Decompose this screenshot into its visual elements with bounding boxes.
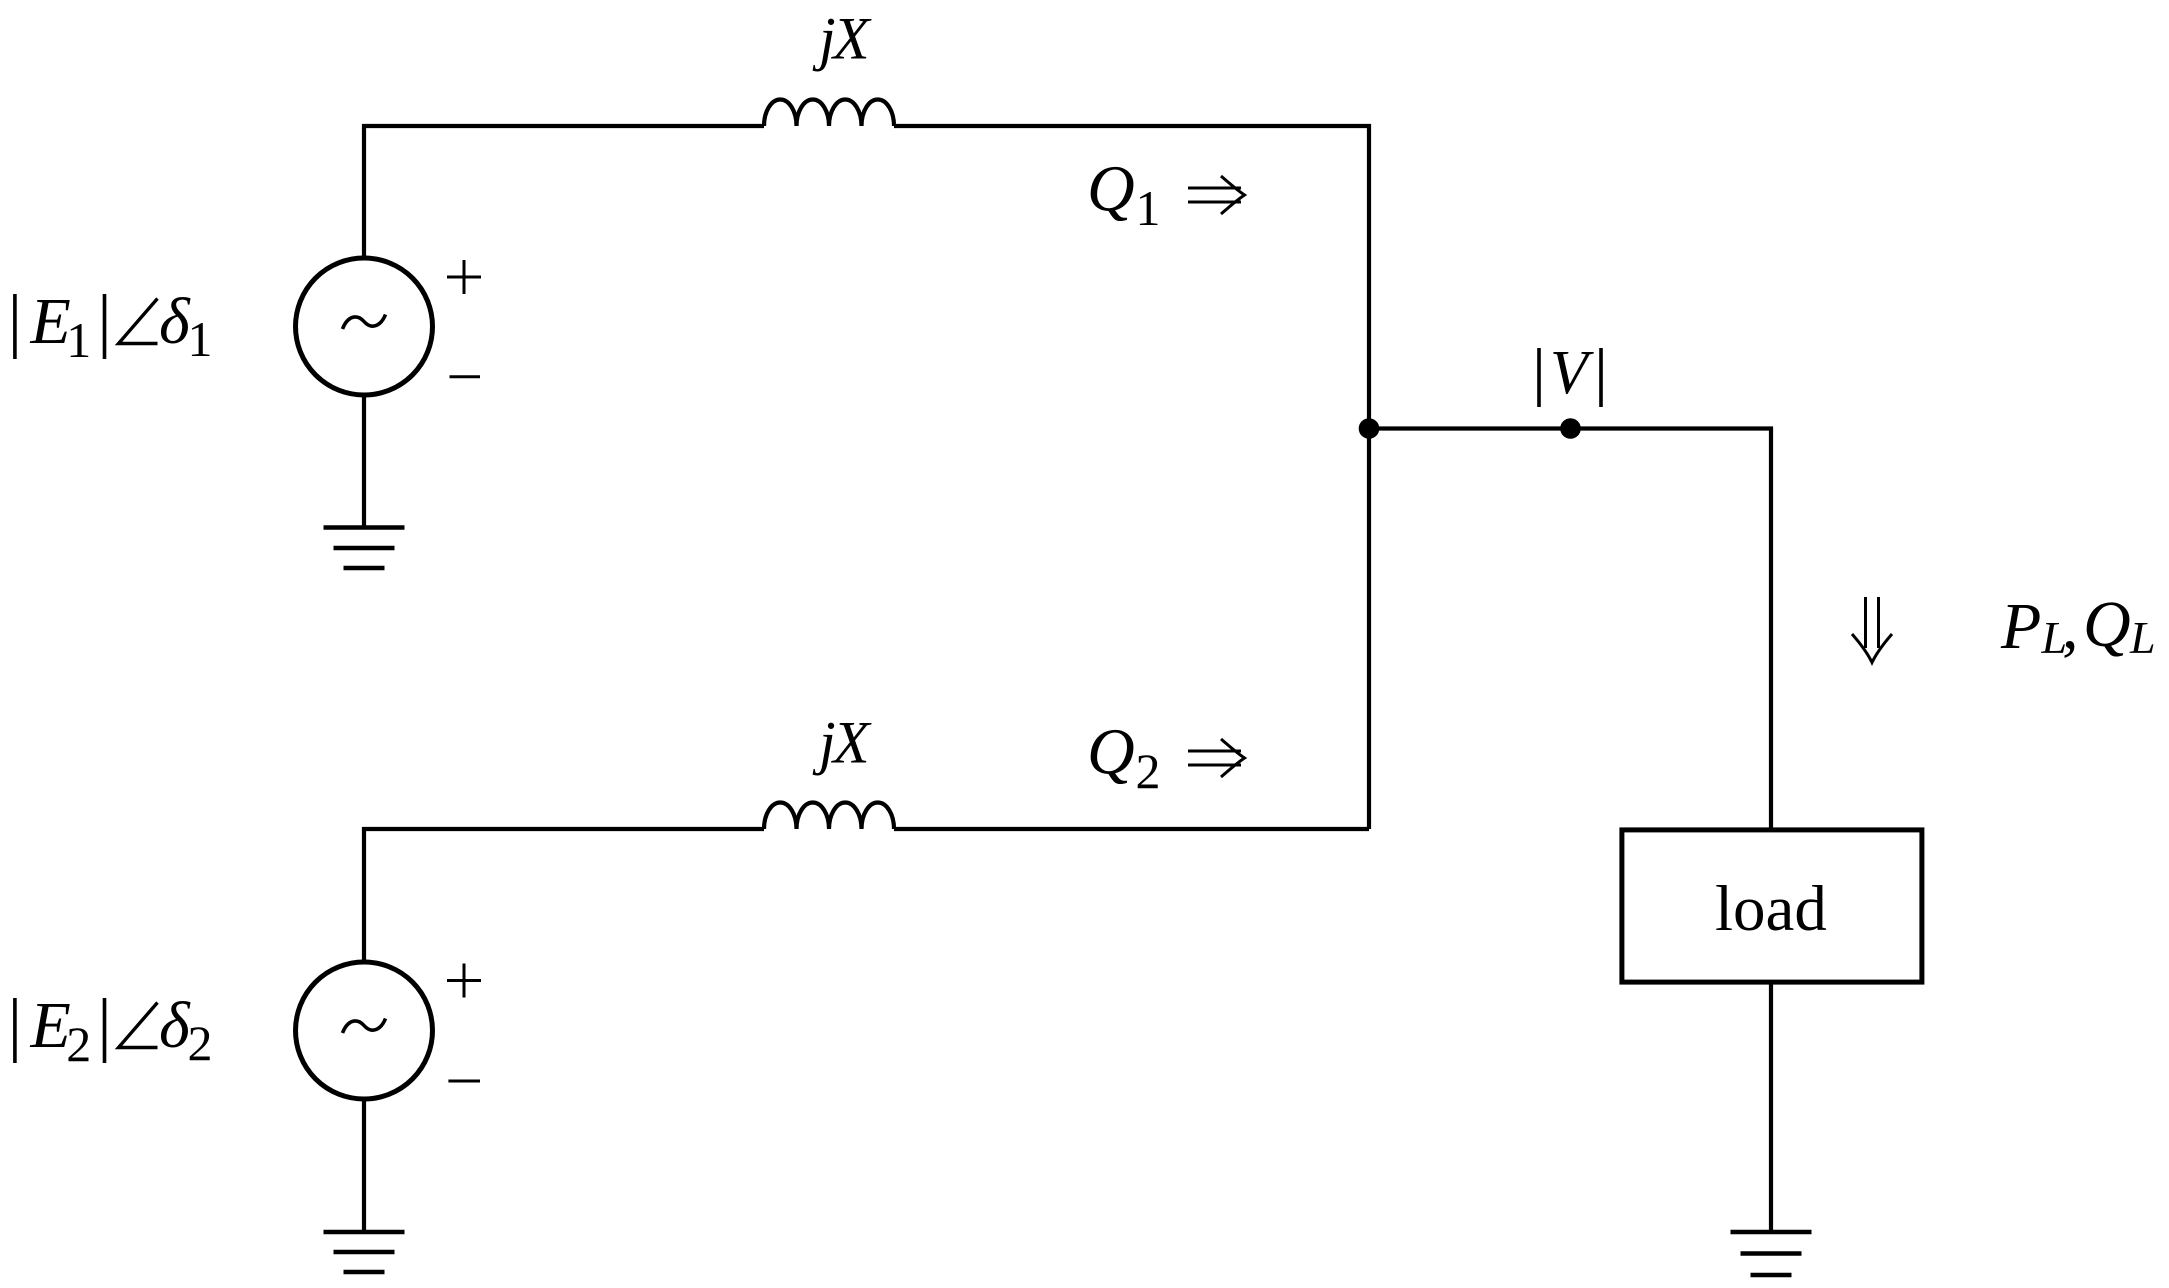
plus sign of E2 [447,964,481,998]
node dot at bus junction [1359,418,1380,439]
svg-text:P: P [2000,590,2041,663]
wire from source E2 bottom to ground [362,1098,366,1231]
svg-text:2: 2 [1136,743,1161,799]
wire from junction right to load drop [1369,429,1771,830]
minus sign of E1 [450,375,481,378]
wire from source E1 bottom to ground [362,394,366,527]
wire bottom bus from right vertical to inductor jX (bottom) [894,827,1369,831]
ground below E1 [324,528,405,569]
arrow P_L,Q_L (double down arrow) [1852,597,1892,663]
arrow Q1 (double right arrow) [1188,176,1245,214]
svg-text:Q: Q [1087,153,1135,226]
arrow Q2 (double right arrow) [1188,739,1245,777]
label jX (bottom inductor value) [812,710,872,776]
label jX (top inductor value) [812,6,872,72]
label Q2 [1087,716,1161,800]
svg-text:E: E [30,285,71,358]
node dot |V| [1560,418,1581,439]
svg-text:1: 1 [1136,180,1161,236]
svg-text:load: load [1715,873,1827,945]
sine symbol inside source E1 [343,315,386,330]
ground below load [1731,1232,1812,1275]
svg-text:δ: δ [159,285,191,358]
svg-text:L: L [2129,612,2156,663]
wire from source E1 top up and right to inductor jX (top) [364,126,764,258]
svg-text:X: X [831,6,872,72]
wire from bottom inductor left and down to source E2 [364,829,764,962]
wire from load bottom to ground [1769,982,1773,1231]
svg-text:Q: Q [1087,716,1135,789]
inductor jX (top), 4 humps [764,100,894,127]
ground below E2 [324,1232,405,1272]
load box [1622,830,1922,982]
AC source E1 [296,258,433,395]
svg-text:V: V [1550,339,1594,407]
svg-text:2: 2 [188,1015,213,1071]
plus sign of E1 [447,260,481,294]
svg-text:2: 2 [66,1016,91,1072]
label |E2| angle delta2 [15,989,213,1072]
label Q1 [1087,153,1161,237]
svg-text:Q: Q [2083,588,2131,661]
label |E1| angle delta1 [15,285,213,368]
svg-text:,: , [2062,590,2079,663]
wire from top inductor right to corner and down to bottom wire (right vertical) [894,126,1369,829]
svg-text:1: 1 [66,312,91,368]
label P_L, Q_L [2000,588,2156,663]
AC source E2 [296,962,433,1099]
svg-text:δ: δ [159,989,191,1062]
svg-text:1: 1 [188,311,213,367]
sine symbol inside source E2 [343,1019,386,1034]
minus sign of E2 [448,1080,480,1083]
svg-text:X: X [831,710,872,776]
inductor jX (bottom), 4 humps [764,803,894,830]
svg-text:E: E [30,989,71,1062]
label |V| [1539,339,1601,407]
